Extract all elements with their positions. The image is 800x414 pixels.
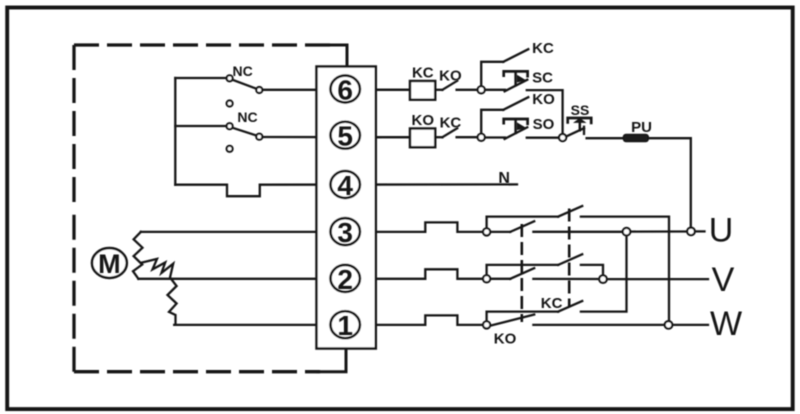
wire contact KO1 to U junction bbox=[533, 231, 622, 233]
terminal 4 bbox=[331, 171, 360, 198]
svg-text:KC: KC bbox=[412, 65, 434, 82]
wire node2 to contact KO2 bbox=[491, 278, 510, 280]
pushbutton SS tick bbox=[583, 127, 585, 134]
node line 1 bbox=[483, 321, 490, 328]
wire V junction to V label bbox=[607, 278, 708, 280]
wire SS to fuse PU bbox=[587, 137, 624, 139]
terminal block bbox=[317, 67, 376, 349]
contact KO seal-in arm bbox=[503, 97, 528, 110]
wire contact KO3 to W terminal bbox=[533, 324, 664, 326]
svg-text:W: W bbox=[710, 305, 742, 343]
pushbutton SO actuator bbox=[504, 119, 528, 124]
motor winding zigzag upper bbox=[133, 232, 143, 279]
node row6 bbox=[478, 86, 485, 93]
wire coil KC to contact KO bbox=[435, 89, 442, 91]
wire bypass A to W bbox=[581, 217, 669, 321]
dashed enclosure top edge bbox=[74, 43, 330, 46]
svg-text:SS: SS bbox=[571, 102, 590, 118]
switch NC2 contact bbox=[256, 134, 262, 140]
wire NC1 to terminal 6 bbox=[263, 89, 410, 91]
wire line 2 with heater bump bbox=[138, 269, 482, 279]
wire bypass B to V junction bbox=[581, 265, 603, 275]
node U junction bbox=[623, 228, 631, 236]
wire fuse PU down to U bbox=[648, 138, 691, 227]
wire SC to corner down bbox=[527, 90, 563, 133]
node V junction bbox=[599, 275, 607, 283]
contact KO3 arm bbox=[492, 315, 535, 326]
dashed enclosure bottom edge bbox=[74, 370, 320, 373]
svg-text:KO: KO bbox=[439, 68, 462, 85]
wire contact to node (row 5) bbox=[457, 136, 477, 138]
wire dashed-top to terminal block bbox=[329, 45, 347, 67]
pushbutton SS arm bbox=[567, 128, 584, 136]
coil KC box (row 6) bbox=[410, 81, 435, 100]
terminal 2 bbox=[331, 265, 360, 292]
svg-text:SC: SC bbox=[532, 70, 553, 87]
switch NC1 open dot bbox=[227, 101, 233, 107]
svg-text:KC: KC bbox=[532, 40, 554, 57]
wire bypass B riser from node 2 bbox=[487, 265, 559, 275]
svg-text:M: M bbox=[98, 249, 121, 279]
terminal 6 bbox=[331, 76, 360, 103]
wire terminal 6 to coil KC bbox=[359, 89, 410, 91]
linkage KO dashed bbox=[520, 224, 523, 322]
terminal W bbox=[665, 321, 673, 329]
switch NC2 pivot bbox=[227, 123, 233, 129]
svg-text:3: 3 bbox=[337, 217, 353, 248]
wire NC2 to terminal 5 bbox=[263, 136, 410, 138]
terminal U bbox=[687, 228, 695, 236]
pushbutton SO arm bbox=[505, 127, 528, 139]
wire NC bus to switch NC2 bbox=[175, 125, 226, 127]
pushbutton SS actuator bbox=[568, 118, 592, 123]
wire line 3 with heater bump bbox=[141, 222, 483, 232]
pushbutton SC arm bbox=[505, 80, 528, 92]
svg-text:1: 1 bbox=[337, 310, 353, 341]
node line 3 bbox=[483, 228, 490, 235]
svg-text:KC: KC bbox=[541, 295, 563, 312]
wire bus to terminal 4 with tab bbox=[175, 184, 517, 196]
wire U junction to U terminal bbox=[631, 230, 687, 232]
switch NC1 contact bbox=[256, 87, 262, 93]
wire NC bus vertical bbox=[174, 78, 176, 185]
wire node to SO button (row 5) bbox=[486, 136, 506, 138]
switch NC2 arm bbox=[233, 128, 257, 136]
switch NC1 pivot bbox=[227, 75, 233, 81]
svg-text:SO: SO bbox=[533, 116, 555, 133]
node line 2 bbox=[483, 275, 490, 282]
wire bypass C riser from node 1 bbox=[487, 312, 559, 321]
wire NC bus to switch NC1 bbox=[175, 77, 226, 79]
wire line 1 with heater bump bbox=[174, 315, 482, 325]
terminal 3 bbox=[331, 218, 360, 245]
motor winding zigzag lower bbox=[142, 259, 176, 325]
wire coil KO to contact KC bbox=[435, 136, 442, 138]
contact KC1 arm bbox=[558, 206, 582, 217]
svg-text:4: 4 bbox=[337, 170, 353, 201]
dashed enclosure left edge bbox=[72, 45, 75, 208]
svg-text:U: U bbox=[709, 212, 734, 250]
svg-text:V: V bbox=[712, 261, 735, 299]
svg-text:6: 6 bbox=[337, 74, 353, 105]
svg-text:KO: KO bbox=[494, 330, 517, 347]
switch NC2 open dot bbox=[227, 146, 233, 152]
terminal 5 bbox=[331, 122, 360, 149]
svg-text:NC: NC bbox=[237, 109, 257, 125]
wire bypass C to U junction bbox=[581, 236, 627, 312]
wire bypass A riser from node 3 bbox=[487, 217, 559, 228]
wire terminal 5 to coil KO bbox=[359, 136, 410, 138]
fuse PU bbox=[624, 135, 649, 142]
node row5 bbox=[478, 134, 485, 141]
wire U terminal stub bbox=[695, 230, 704, 232]
svg-text:N: N bbox=[498, 170, 510, 187]
svg-text:KC: KC bbox=[440, 115, 462, 132]
wire node6 riser to seal-in KC bbox=[481, 62, 503, 86]
motor M circle bbox=[92, 248, 127, 278]
wire node3 to contact KO1 bbox=[491, 231, 510, 233]
contact KC3 arm bbox=[558, 301, 582, 312]
contact KC2 arm bbox=[558, 254, 582, 265]
wire W terminal to W label bbox=[673, 324, 708, 326]
contact KO2 arm bbox=[510, 268, 534, 279]
pushbutton SC actuator bbox=[504, 71, 528, 76]
wire dashed-bottom to terminal block bbox=[318, 349, 346, 372]
contact KC seal-in arm (top) bbox=[503, 49, 528, 62]
svg-text:KO: KO bbox=[532, 91, 555, 108]
wire contact KO2 to V junction bbox=[533, 278, 598, 280]
terminal 1 bbox=[331, 311, 360, 338]
wire contact to node (row 6) bbox=[457, 89, 477, 91]
wire SO to node SS bbox=[527, 137, 559, 139]
switch NC1 arm bbox=[233, 80, 257, 89]
svg-text:NC: NC bbox=[232, 63, 252, 79]
svg-text:5: 5 bbox=[337, 121, 353, 152]
wire node to SC button (row 6) bbox=[486, 89, 506, 91]
svg-text:KO: KO bbox=[412, 112, 435, 129]
contact KO arm (row 6) bbox=[442, 81, 457, 90]
wire node5 riser to seal-in KO bbox=[481, 110, 503, 133]
coil KO box (row 5) bbox=[410, 129, 435, 148]
svg-text:PU: PU bbox=[631, 119, 652, 136]
node SS common bbox=[559, 134, 566, 141]
contact KC arm (row 5) bbox=[442, 128, 457, 137]
contact KO1 arm bbox=[510, 221, 534, 232]
linkage KC dashed bbox=[568, 209, 571, 308]
svg-text:2: 2 bbox=[337, 264, 353, 295]
